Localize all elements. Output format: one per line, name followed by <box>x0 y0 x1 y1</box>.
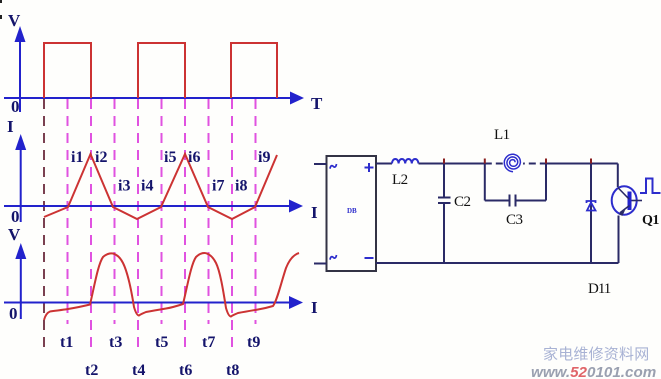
wire voltage hump trace plot3 <box>44 253 299 320</box>
node junction tick C2 <box>443 159 445 164</box>
svg-text:i7: i7 <box>212 178 224 195</box>
wire dashed timing line t9 <box>255 99 257 324</box>
svg-text:L2: L2 <box>392 172 408 188</box>
wire triangle current trace plot2 <box>44 154 277 219</box>
wire dashed timing line t2 <box>90 99 92 352</box>
node AC mark bottom inside bridge <box>329 255 337 260</box>
svg-text:C2: C2 <box>454 194 471 210</box>
wire dashed timing line t7 <box>208 99 210 324</box>
inductor L2 <box>392 159 418 164</box>
wire T-axis arrowhead plot2 <box>289 200 303 213</box>
svg-text:i5: i5 <box>164 149 176 166</box>
svg-text:DB: DB <box>347 207 357 215</box>
wire AC input stub top <box>314 163 327 165</box>
node I axis plot2 <box>4 141 291 222</box>
wire C3 branch left vertical <box>484 164 486 201</box>
wire dashed timing line t8 <box>231 99 233 352</box>
svg-text:T: T <box>311 94 323 113</box>
wire T-axis arrowhead plot1 <box>290 92 304 105</box>
svg-text:C3: C3 <box>506 212 523 228</box>
svg-text:L1: L1 <box>494 127 510 143</box>
wire C3 branch bottom right <box>516 200 547 202</box>
svg-text:0: 0 <box>9 304 18 323</box>
wire V-axis arrowhead plot3 <box>15 243 26 259</box>
svg-text:V: V <box>8 225 21 244</box>
node minus terminal bridge <box>365 257 374 259</box>
node V axis plot1 <box>4 33 292 112</box>
svg-text:i3: i3 <box>118 178 130 195</box>
wire L1 section dashed wire behind coil <box>485 163 546 165</box>
wire dashed timing line t6 <box>184 99 186 352</box>
node plus terminal bridge <box>365 163 374 172</box>
wire C3 branch right vertical <box>545 164 547 201</box>
node junction tick diode top <box>590 159 592 164</box>
capacitor C2 <box>438 164 451 264</box>
wire T-axis arrowhead plot3 <box>289 296 303 309</box>
svg-text:家电维修资料网: 家电维修资料网 <box>543 346 649 363</box>
wire dashed timing line t0 (dark) <box>43 99 45 350</box>
wire top rail L2 to C2 node <box>419 163 445 165</box>
diode D11 <box>587 201 596 211</box>
wire emitter drop <box>618 216 620 264</box>
wire dashed timing line t3 <box>114 99 116 324</box>
wire dashed timing line t4 <box>137 99 139 352</box>
inductor L1 (spiral) <box>503 152 523 172</box>
capacitor C3 <box>510 195 516 207</box>
bridge rectifier DB <box>327 156 377 271</box>
svg-text:t1: t1 <box>60 334 73 351</box>
svg-text:Q1: Q1 <box>642 213 659 228</box>
svg-text:t9: t9 <box>247 334 260 351</box>
svg-text:t3: t3 <box>109 334 122 351</box>
svg-text:i9: i9 <box>258 149 270 166</box>
svg-text:0: 0 <box>11 97 20 116</box>
svg-text:i1: i1 <box>71 149 83 166</box>
wire V-axis arrowhead plot1 <box>15 26 26 42</box>
wire scan artifact top-left corner <box>0 0 2 3</box>
svg-text:I: I <box>311 203 318 222</box>
svg-text:t5: t5 <box>155 334 168 351</box>
node junction tick L1 right <box>545 159 547 164</box>
svg-text:i2: i2 <box>95 149 107 166</box>
node AC mark top inside bridge <box>329 164 337 169</box>
transistor Q1 <box>612 186 642 216</box>
svg-text:I: I <box>7 117 14 136</box>
wire dashed timing line t1 <box>67 99 69 324</box>
svg-text:t7: t7 <box>202 334 215 351</box>
svg-text:V: V <box>8 11 21 30</box>
svg-text:t6: t6 <box>179 362 192 379</box>
wire dashed timing line t5 <box>161 99 163 324</box>
svg-text:0: 0 <box>11 207 20 226</box>
wire square-wave trace plot1 <box>44 43 277 98</box>
wire bottom rail <box>376 262 619 264</box>
svg-text:D11: D11 <box>588 281 611 297</box>
svg-text:I: I <box>311 298 318 317</box>
svg-text:t4: t4 <box>132 362 145 379</box>
wire collector drop <box>617 164 619 188</box>
svg-text:t8: t8 <box>226 362 239 379</box>
svg-text:i4: i4 <box>141 178 153 195</box>
wire top rail C2 node to L1 left node <box>444 163 485 165</box>
node junction tick L1 left <box>484 159 486 164</box>
svg-text:www.520101.com: www.520101.com <box>531 364 656 379</box>
wire base drive pulse symbol <box>640 179 661 194</box>
wire C3 branch bottom left <box>485 200 510 202</box>
svg-text:i8: i8 <box>235 178 247 195</box>
wire diode branch <box>590 164 592 264</box>
wire AC input stub bottom <box>314 263 327 265</box>
svg-text:i6: i6 <box>188 149 200 166</box>
svg-text:t2: t2 <box>85 362 98 379</box>
wire top rail rect to L2 <box>376 163 392 165</box>
node V axis plot3 <box>4 250 291 319</box>
wire top rail L1 right node to corner <box>546 163 618 165</box>
wire I-axis arrowhead plot2 <box>15 134 26 150</box>
